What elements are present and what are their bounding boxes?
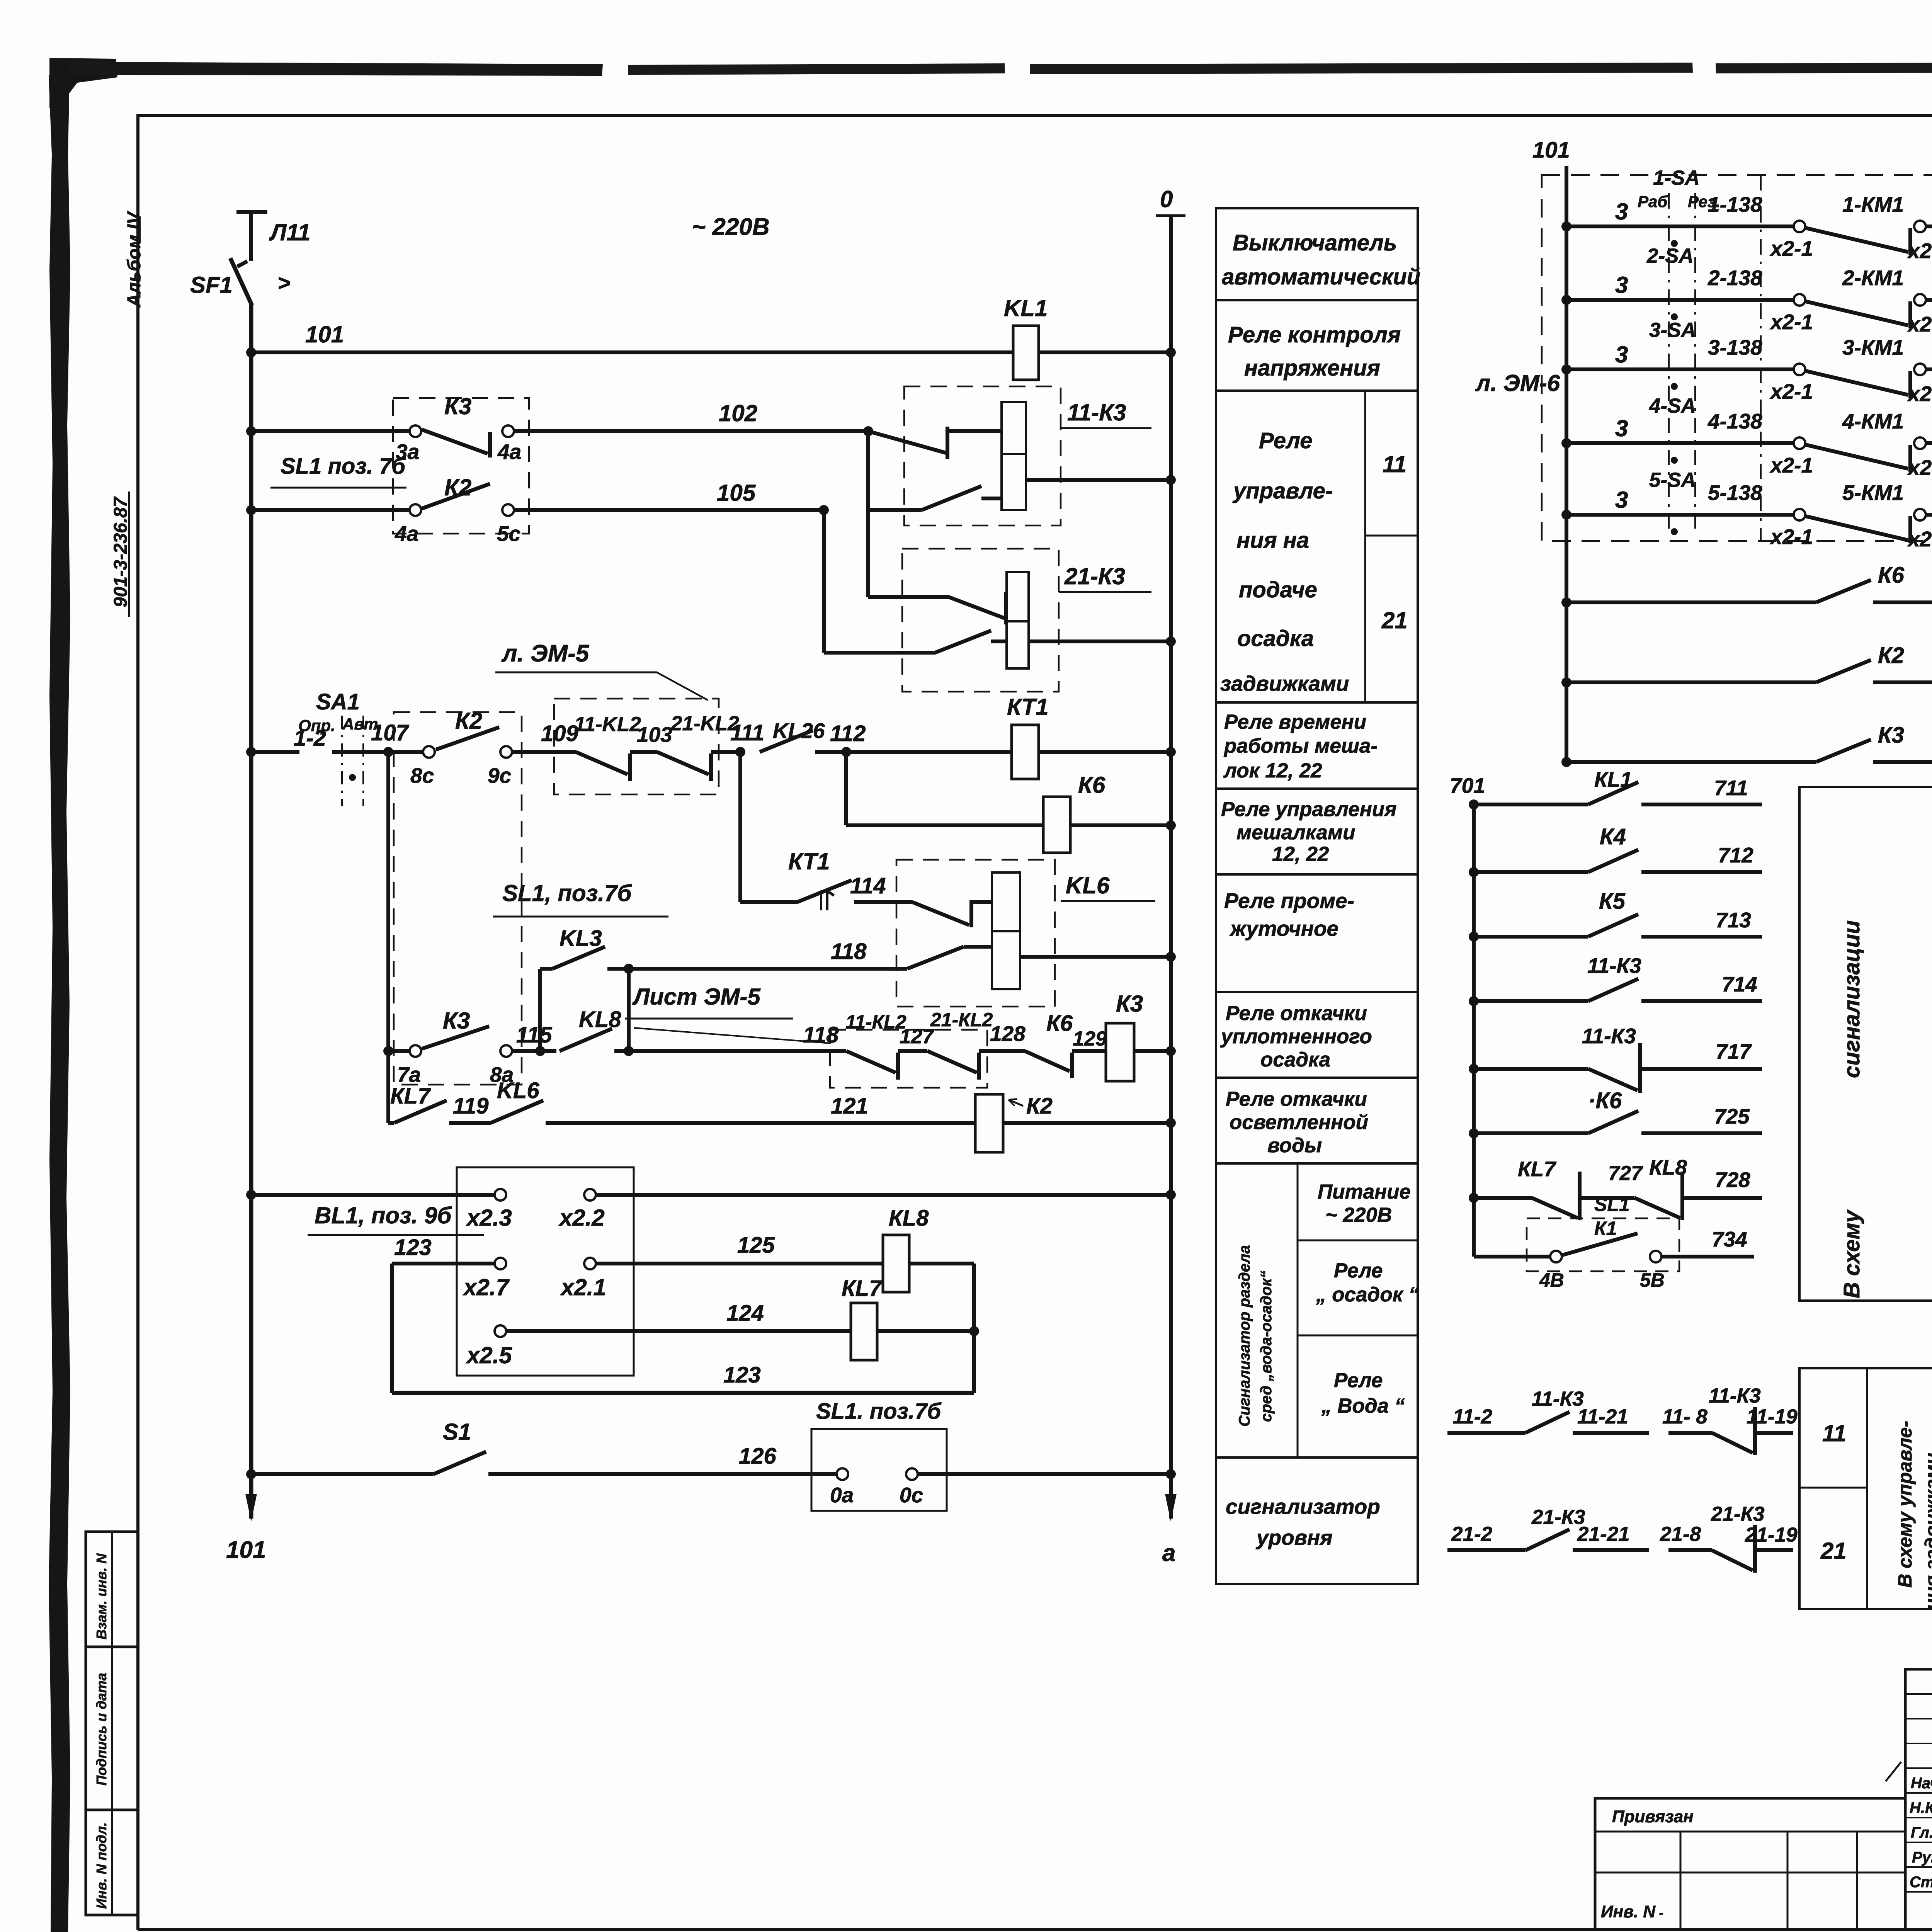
svg-text:0: 0 <box>1160 186 1173 212</box>
svg-text:х2-1: х2-1 <box>1769 310 1813 334</box>
actuator 21-К3 <box>1007 572 1029 668</box>
wire 102 row <box>246 426 256 436</box>
contact 11-К3 upper <box>868 431 946 453</box>
contact 21-К3 upper <box>868 597 1005 618</box>
svg-text:Реле контроля: Реле контроля <box>1228 322 1401 347</box>
svg-text:Привязан: Привязан <box>1612 1807 1694 1826</box>
node Л11 terminal <box>236 210 267 214</box>
svg-text:х2-1: х2-1 <box>1769 236 1813 260</box>
svg-text:BL1, поз. 9б: BL1, поз. 9б <box>315 1202 452 1228</box>
svg-text:КL1: КL1 <box>1594 767 1632 791</box>
svg-text:сред „вода-осадок“: сред „вода-осадок“ <box>1258 1270 1275 1422</box>
svg-text:л. ЭМ-9: л. ЭМ-9 <box>1928 1010 1932 1093</box>
contact 11-К3 row 714 <box>1469 996 1479 1006</box>
contact pair 21-2/21-21 <box>1447 1548 1526 1552</box>
svg-text:2-КМ1: 2-КМ1 <box>1842 266 1904 290</box>
svg-text:3-КМ1: 3-КМ1 <box>1842 335 1904 359</box>
svg-text:3: 3 <box>1615 272 1628 298</box>
switch S1 <box>434 1452 486 1474</box>
relay coil К6 <box>1043 797 1070 853</box>
svg-text:11-К3: 11-К3 <box>1582 1024 1636 1048</box>
contact into KL6 lower <box>907 947 964 969</box>
svg-text:S1: S1 <box>443 1419 471 1445</box>
svg-text:KL3: KL3 <box>560 926 602 951</box>
svg-text:х2.2: х2.2 <box>558 1205 605 1231</box>
svg-text:Взам. инв. N: Взам. инв. N <box>94 1553 109 1639</box>
svg-text:7а: 7а <box>397 1063 421 1087</box>
svg-text:714: 714 <box>1722 972 1757 996</box>
scan artifact: left dark edge band <box>49 73 70 1932</box>
contact К2 lamp row <box>1816 660 1871 682</box>
svg-text:9с: 9с <box>488 764 511 787</box>
node 115 <box>535 1046 545 1056</box>
svg-text:KL6: KL6 <box>1066 872 1110 898</box>
svg-text:К2: К2 <box>1878 643 1904 668</box>
svg-text:717: 717 <box>1716 1039 1752 1063</box>
svg-text:„ Вода “: „ Вода “ <box>1321 1395 1405 1417</box>
contact К6 lamp row <box>1816 580 1871 602</box>
contact KL6 <box>491 1100 543 1123</box>
contact К3 lamp row <box>1816 740 1871 762</box>
svg-text:КL7: КL7 <box>390 1083 431 1109</box>
svg-text:Сигнализатор раздела: Сигнализатор раздела <box>1236 1245 1253 1427</box>
svg-text:128: 128 <box>990 1022 1026 1046</box>
svg-text:Л11: Л11 <box>269 219 311 245</box>
svg-text:х2.5: х2.5 <box>466 1342 512 1368</box>
level sensor BL1 box <box>457 1167 634 1376</box>
svg-text:л. ЭМ-6: л. ЭМ-6 <box>1475 370 1560 396</box>
legend box: реле управления мешалками <box>1216 789 1418 874</box>
legend box: реле откачки осветленной воды <box>1216 1078 1418 1163</box>
relay block KL6 dashed box <box>896 860 1055 1007</box>
svg-text:осадка: осадка <box>1260 1048 1330 1071</box>
svg-text:подаче: подаче <box>1239 577 1317 602</box>
svg-text:Подпись и дата: Подпись и дата <box>94 1673 109 1786</box>
contact KL7 <box>394 1100 447 1123</box>
svg-text:сигнализации: сигнализации <box>1839 920 1864 1078</box>
svg-text:Альбом IV: Альбом IV <box>124 211 145 308</box>
contact 1-КМ1 <box>1806 228 1908 252</box>
svg-text:3: 3 <box>1615 415 1628 441</box>
junction node on 102 <box>863 426 873 436</box>
svg-text:а: а <box>1162 1540 1175 1566</box>
svg-text:х2.1: х2.1 <box>560 1274 606 1300</box>
svg-text:701: 701 <box>1450 774 1485 798</box>
rotated margin text: Альбом IV <box>124 211 145 308</box>
contact KL3 <box>553 947 605 969</box>
svg-text:КТ1: КТ1 <box>1007 694 1049 720</box>
svg-text:3: 3 <box>1615 342 1628 367</box>
wire: 102 to 105 tie <box>866 431 870 510</box>
contact pair 11-2/11-21 <box>1447 1431 1526 1435</box>
svg-text:х2-2: х2-2 <box>1907 527 1932 551</box>
svg-text:109: 109 <box>541 721 578 746</box>
svg-text:SF1: SF1 <box>190 272 233 298</box>
svg-text:127: 127 <box>900 1025 935 1048</box>
svg-text:Реле: Реле <box>1334 1259 1383 1282</box>
rotated label: Подпись и дата <box>94 1673 109 1786</box>
svg-text:711: 711 <box>1714 776 1748 800</box>
wire lamp row HL1 <box>1561 597 1571 607</box>
contact K2 (SL1 4а-5с) <box>410 504 421 516</box>
scan artifact: top smear band <box>70 62 603 76</box>
dashed box 11-KL2/21-KL2 (second) <box>830 1030 987 1088</box>
svg-text:Нач.отд.: Нач.отд. <box>1911 1775 1932 1792</box>
contact pair 21-8/21-19 <box>1668 1548 1712 1552</box>
svg-text:осадка: осадка <box>1237 626 1314 651</box>
svg-text:сигнализатор: сигнализатор <box>1226 1495 1380 1519</box>
svg-text:К6: К6 <box>1078 772 1105 798</box>
svg-text:К3: К3 <box>1116 991 1143 1017</box>
svg-text:К6: К6 <box>1046 1011 1073 1036</box>
svg-text:11-2: 11-2 <box>1453 1405 1492 1428</box>
svg-text:уровня: уровня <box>1255 1526 1333 1549</box>
svg-text:107: 107 <box>371 720 410 745</box>
wire lamp row HL3 <box>1561 757 1571 767</box>
contact KL7-KL8 row 728 <box>1469 1193 1479 1203</box>
contact К4 row 712 <box>1469 867 1479 877</box>
svg-text:мешалками: мешалками <box>1236 821 1355 844</box>
svg-text:х2-1: х2-1 <box>1769 379 1813 403</box>
svg-text:ния на: ния на <box>1236 528 1309 553</box>
terminal х2-2 row1 <box>1914 221 1926 232</box>
scan artifact: top-left corner blob <box>49 58 117 108</box>
contact К6 row 725 <box>1469 1128 1479 1138</box>
svg-text:21: 21 <box>1381 607 1408 633</box>
svg-text:~ 220В: ~ 220В <box>1325 1204 1392 1226</box>
tall dashed box SL1 contacts <box>394 712 522 1085</box>
relay coil KL8 <box>883 1235 909 1292</box>
contact into KL6 upper <box>913 902 969 925</box>
wire row 5 <box>1561 510 1571 520</box>
svg-text:работы меша-: работы меша- <box>1223 735 1378 757</box>
contact К6 <box>1025 1051 1070 1071</box>
svg-text:118: 118 <box>831 939 867 964</box>
svg-text:>: > <box>277 270 291 296</box>
legend box: сигнализатор уровня <box>1216 1458 1418 1584</box>
wire КТ1 contact row <box>738 752 742 902</box>
terminal x2.7 <box>495 1258 506 1269</box>
svg-text:126: 126 <box>739 1444 777 1469</box>
relay KL6 body <box>992 872 1020 989</box>
actuator 11-К3 <box>1002 402 1026 510</box>
svg-text:121: 121 <box>831 1094 868 1119</box>
svg-text:воды: воды <box>1267 1134 1322 1157</box>
svg-text:3: 3 <box>1615 199 1628 224</box>
branch to К6 coil <box>844 752 848 825</box>
terminal 0а <box>837 1468 848 1480</box>
svg-text:727: 727 <box>1608 1162 1643 1185</box>
svg-text:л. ЭМ-5: л. ЭМ-5 <box>501 640 590 667</box>
wire row 2 <box>1561 295 1571 305</box>
contact К5 row 713 <box>1469 932 1479 942</box>
svg-text:х2.7: х2.7 <box>463 1274 510 1300</box>
svg-text:11-К3: 11-К3 <box>1532 1388 1584 1410</box>
svg-text:5-138: 5-138 <box>1708 481 1762 505</box>
selector column dash-dot lines <box>1668 193 1670 529</box>
svg-text:х2-2: х2-2 <box>1907 382 1932 406</box>
svg-text:ния задвижками: ния задвижками <box>1921 1453 1932 1610</box>
time contact КТ1 <box>797 880 852 902</box>
svg-text:Реле управления: Реле управления <box>1221 798 1396 821</box>
svg-text:3: 3 <box>1615 487 1628 513</box>
wire: left bus 101 <box>249 304 253 1519</box>
rotated label: Взам. инв. N <box>94 1553 109 1639</box>
svg-text:2-SA: 2-SA <box>1646 245 1694 267</box>
svg-text:К4: К4 <box>1600 824 1626 849</box>
svg-text:автоматический: автоматический <box>1222 264 1420 289</box>
contact KL8 <box>560 1029 612 1051</box>
legend box: реле времени работы мешалок <box>1216 702 1418 789</box>
svg-text:0а: 0а <box>830 1483 854 1507</box>
svg-text:К2: К2 <box>444 474 471 500</box>
wire KL3 row <box>540 967 553 971</box>
svg-text:К2: К2 <box>1026 1094 1053 1119</box>
svg-text:х2.3: х2.3 <box>466 1205 512 1231</box>
svg-text:101: 101 <box>226 1537 266 1563</box>
svg-text:734: 734 <box>1712 1227 1747 1251</box>
svg-text:129: 129 <box>1073 1027 1107 1050</box>
svg-text:21-КL2: 21-КL2 <box>930 1009 993 1031</box>
wire x2.3-x2.2 row <box>246 1190 256 1200</box>
bottom-left margin table <box>86 1532 138 1915</box>
svg-text:125: 125 <box>737 1233 775 1258</box>
svg-text:4а: 4а <box>497 440 521 464</box>
svg-text:8с: 8с <box>410 764 434 787</box>
svg-text:„ осадок “: „ осадок “ <box>1316 1283 1419 1306</box>
contact KL26 <box>760 730 813 752</box>
svg-text:105: 105 <box>717 480 756 506</box>
svg-text:114: 114 <box>850 873 886 898</box>
wire row 3 <box>1561 364 1571 374</box>
svg-text:жуточное: жуточное <box>1229 917 1338 940</box>
svg-text:0с: 0с <box>900 1483 923 1507</box>
svg-text:123: 123 <box>723 1362 761 1388</box>
svg-text:Опр.: Опр. <box>298 716 335 735</box>
svg-text:901-3-236.87: 901-3-236.87 <box>111 496 131 607</box>
svg-text:Реле откачки: Реле откачки <box>1226 1088 1367 1111</box>
svg-text:21-KL2: 21-KL2 <box>670 712 739 735</box>
terminal x2.3 <box>495 1189 506 1201</box>
svg-text:725: 725 <box>1714 1104 1750 1128</box>
svg-text:Лист ЭМ-5: Лист ЭМ-5 <box>632 984 761 1010</box>
svg-text:11-К3: 11-К3 <box>1587 954 1641 978</box>
wire 7а-8а row <box>386 752 390 1123</box>
svg-text:Выключатель: Выключатель <box>1233 230 1397 255</box>
rotated label: Инв. N подл. <box>94 1822 109 1909</box>
svg-text:SL1. поз.7б: SL1. поз.7б <box>816 1399 942 1424</box>
legend box: реле промежуточное <box>1216 874 1418 992</box>
svg-text:·К6: ·К6 <box>1588 1088 1622 1113</box>
svg-text:К5: К5 <box>1599 889 1626 914</box>
svg-text:4-SA: 4-SA <box>1649 395 1696 417</box>
svg-text:SL1: SL1 <box>1594 1194 1630 1215</box>
svg-text:Гл.спец.: Гл.спец. <box>1911 1824 1932 1841</box>
svg-text:KL1: KL1 <box>1004 295 1048 321</box>
switch SL1/К1 row 734 <box>1474 1255 1550 1259</box>
legend box: В схему сигнализации л.ЭМ-9 <box>1799 787 1932 1301</box>
svg-text:х2-1: х2-1 <box>1769 525 1813 549</box>
legend box: В схему управления задвижками л.ЭМ-5 <box>1799 1368 1932 1609</box>
svg-text:102: 102 <box>719 400 757 426</box>
svg-text:713: 713 <box>1716 908 1751 932</box>
wire 123 return <box>392 1391 974 1395</box>
svg-text:21-8: 21-8 <box>1660 1523 1701 1546</box>
contact К3 (7а-8а) <box>410 1045 421 1057</box>
legend box: реле откачки уплотненного осадка <box>1216 992 1418 1078</box>
svg-text:1-SA: 1-SA <box>1653 167 1700 189</box>
terminal x2.1 <box>584 1258 596 1269</box>
wire row 1 (138) <box>1561 221 1571 231</box>
title block: привязан box <box>1595 1798 1905 1930</box>
svg-text:11- 8: 11- 8 <box>1662 1405 1708 1428</box>
contact 21-KL2 (break) <box>927 1051 977 1073</box>
svg-text:11-КL2: 11-КL2 <box>845 1011 906 1033</box>
svg-text:101: 101 <box>1532 138 1570 163</box>
svg-text:712: 712 <box>1718 843 1753 867</box>
svg-text:уплотненного: уплотненного <box>1220 1025 1372 1048</box>
svg-text:осветленной: осветленной <box>1230 1111 1368 1134</box>
svg-text:SL1 поз. 7б: SL1 поз. 7б <box>281 454 406 479</box>
svg-text:5-КМ1: 5-КМ1 <box>1842 481 1904 505</box>
svg-text:21-К3: 21-К3 <box>1711 1503 1765 1526</box>
level switch SL1 box <box>811 1429 947 1511</box>
svg-text:1-138: 1-138 <box>1708 192 1762 216</box>
svg-text:КL8: КL8 <box>889 1206 929 1231</box>
svg-text:11-К3: 11-К3 <box>1067 400 1126 425</box>
svg-text:KL6: KL6 <box>497 1078 539 1103</box>
relay coil КТ1 <box>1012 725 1039 779</box>
svg-text:21-2: 21-2 <box>1451 1523 1492 1546</box>
svg-text:KL8: KL8 <box>579 1007 621 1032</box>
svg-text:SA1: SA1 <box>316 689 360 714</box>
contact pair 11-8/11-19 <box>1668 1431 1712 1435</box>
svg-text:Ст.инж.: Ст.инж. <box>1910 1874 1932 1891</box>
legend box: выключатель автоматический <box>1216 208 1418 300</box>
wire 105 row <box>246 505 256 515</box>
svg-text:напряжения: напряжения <box>1244 355 1380 381</box>
relay coil KL7 <box>851 1303 877 1360</box>
svg-text:КL8: КL8 <box>1649 1155 1687 1179</box>
svg-text:11-19: 11-19 <box>1747 1405 1798 1428</box>
svg-text:Реле времени: Реле времени <box>1224 711 1366 733</box>
svg-text:управле-: управле- <box>1232 478 1333 503</box>
svg-text:Инв. N подл.: Инв. N подл. <box>94 1822 109 1909</box>
svg-text:21: 21 <box>1820 1538 1847 1564</box>
svg-text:124: 124 <box>726 1301 764 1326</box>
contact KL1 row 711 <box>1469 799 1479 810</box>
relay coil KL1 <box>1013 326 1039 380</box>
svg-text:Реле откачки: Реле откачки <box>1226 1002 1367 1025</box>
terminal 0с <box>906 1468 918 1480</box>
contact 11-KL2 (break) <box>576 752 628 774</box>
svg-text:2-138: 2-138 <box>1708 266 1762 290</box>
svg-text:21-19: 21-19 <box>1745 1524 1798 1546</box>
svg-text:задвижками: задвижками <box>1220 672 1349 696</box>
dashed cabinet box л.ЭМ-6 <box>1542 175 1932 541</box>
wire KL7-KL6 row <box>388 1121 394 1125</box>
legend box: сигнализатор раздела сред <box>1216 1163 1418 1458</box>
svg-text:103: 103 <box>637 723 672 747</box>
svg-text:21-К3: 21-К3 <box>1064 563 1125 589</box>
svg-text:11-К3: 11-К3 <box>1709 1384 1761 1407</box>
svg-text:К1: К1 <box>1594 1218 1617 1239</box>
svg-text:Реле: Реле <box>1259 428 1312 453</box>
terminal х2-1 row1 <box>1794 221 1805 232</box>
svg-text:КТ1: КТ1 <box>788 849 830 874</box>
svg-text:х2-2: х2-2 <box>1907 456 1932 480</box>
svg-text:11-21: 11-21 <box>1577 1405 1628 1428</box>
svg-text:118: 118 <box>803 1022 839 1048</box>
wire row 4 <box>1561 438 1571 448</box>
svg-text:3-138: 3-138 <box>1708 335 1762 359</box>
svg-text:1-КМ1: 1-КМ1 <box>1842 192 1904 216</box>
svg-text:К3: К3 <box>443 1008 470 1034</box>
contact 11-К3 lower <box>819 505 829 515</box>
svg-text:728: 728 <box>1715 1168 1750 1192</box>
svg-text:101: 101 <box>305 321 344 347</box>
relay coil К2 <box>975 1094 1003 1152</box>
svg-text:К6: К6 <box>1878 563 1905 588</box>
svg-text:Реле проме-: Реле проме- <box>1224 889 1354 913</box>
svg-text:В схему: В схему <box>1839 1209 1864 1298</box>
svg-text:В схему управле-: В схему управле- <box>1894 1421 1916 1588</box>
svg-text:КL7: КL7 <box>1518 1157 1556 1181</box>
dashed box 11-KL2/21-KL2 <box>554 699 719 794</box>
legend box: реле управления задвижками 11/21 <box>1216 391 1418 702</box>
dashed box around SL1 contacts <box>393 398 529 534</box>
svg-text:4В: 4В <box>1539 1269 1564 1291</box>
svg-text:Н.Контр.: Н.Контр. <box>1910 1799 1932 1816</box>
svg-text:х2-2: х2-2 <box>1907 312 1932 336</box>
svg-text:х2-2: х2-2 <box>1907 239 1932 263</box>
svg-text:111: 111 <box>730 720 764 745</box>
contact 21-К3 lower <box>824 631 991 653</box>
svg-text:123: 123 <box>394 1235 432 1260</box>
contact 21-KL2 (break) <box>657 752 709 774</box>
svg-text:11-KL2: 11-KL2 <box>574 713 641 736</box>
svg-text:4-138: 4-138 <box>1708 409 1762 433</box>
svg-text:3-SA: 3-SA <box>1649 319 1696 342</box>
circuit breaker SF1 <box>230 258 252 305</box>
wire ties into 21-К3 <box>866 510 870 597</box>
svg-text:KL26: KL26 <box>773 719 825 743</box>
relay coil К3 <box>1106 1023 1134 1081</box>
svg-text:5В: 5В <box>1640 1269 1665 1291</box>
svg-text:х2-1: х2-1 <box>1769 453 1813 477</box>
svg-text:5-SA: 5-SA <box>1649 469 1696 492</box>
wire 124 row <box>495 1325 506 1337</box>
svg-text:К3: К3 <box>1878 723 1904 748</box>
svg-text:12, 22: 12, 22 <box>1272 843 1329 866</box>
contact 11-К3 break row 717 <box>1469 1064 1479 1074</box>
contact К2 (8с-9с) <box>423 746 435 758</box>
contact K3 (SL1 3а-4а) <box>410 425 421 437</box>
svg-text:4-КМ1: 4-КМ1 <box>1842 409 1904 433</box>
svg-text:Раб: Раб <box>1638 192 1668 211</box>
title block: signature grid <box>1905 1669 1932 1930</box>
svg-text:Рук.гр.: Рук.гр. <box>1912 1849 1932 1866</box>
svg-text:КL7: КL7 <box>842 1276 883 1301</box>
svg-text:Питание: Питание <box>1318 1180 1411 1203</box>
svg-text:21-21: 21-21 <box>1577 1523 1630 1546</box>
svg-text:119: 119 <box>453 1094 488 1119</box>
svg-text:11: 11 <box>1822 1420 1846 1446</box>
wire 1-2 row <box>246 747 256 757</box>
valve block 11-К3 dashed box <box>904 386 1061 526</box>
rotated margin text: 901-3-236.87 <box>111 496 131 607</box>
valve block 21-К3 dashed box <box>902 549 1059 692</box>
